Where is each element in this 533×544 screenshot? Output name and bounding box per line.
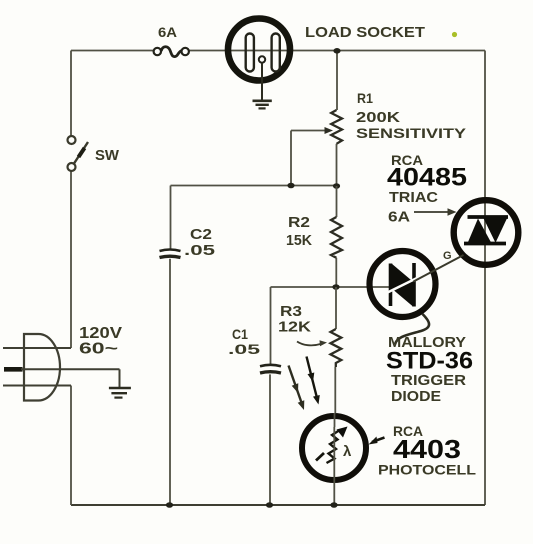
junction (top rail / R1 branch) — [333, 48, 340, 54]
junction (photocell / bottom rail) — [330, 502, 337, 508]
wire: left vertical switch to plug hot prong — [70, 172, 72, 349]
photocell PC1 RCA 4403 — [302, 416, 366, 480]
junction (R2/R3/diac node) — [332, 284, 339, 290]
svg-text:LOAD SOCKET: LOAD SOCKET — [305, 24, 425, 41]
capacitor C1 — [270, 287, 272, 365]
wire: middle prong to ground — [119, 369, 121, 387]
svg-text:DIODE: DIODE — [391, 389, 441, 405]
svg-text:G: G — [443, 250, 452, 262]
svg-text:STD-36: STD-36 — [386, 348, 473, 375]
pointer arrow from 12K to R3 — [297, 342, 321, 346]
ground (below socket) — [253, 63, 272, 109]
svg-text:C2: C2 — [190, 227, 212, 243]
svg-text:TRIAC: TRIAC — [389, 190, 439, 206]
pointer squiggle to MALLORY label — [395, 314, 429, 344]
pointer arrow from 6A to triac — [414, 211, 448, 213]
svg-text:.05: .05 — [184, 243, 215, 259]
resistor R2 zigzag — [336, 186, 338, 217]
light arrows onto photocell — [289, 357, 320, 411]
wire: top rail from left corner to fuse — [71, 50, 153, 52]
potentiometer R1 zigzag — [331, 110, 342, 144]
load socket J1 — [228, 19, 290, 81]
ground (plug) — [109, 388, 131, 398]
wire: photocell top lead — [334, 413, 336, 427]
wire: wiper down — [290, 131, 292, 186]
plug prong (hot, top) — [3, 347, 71, 349]
svg-text:R3: R3 — [280, 304, 302, 320]
junction (R1 bottom / link) — [333, 183, 340, 189]
svg-text:C1: C1 — [232, 326, 248, 342]
plug prong (neutral, bottom) — [3, 385, 71, 387]
wire: horizontal node link R2 bottom to diac — [271, 286, 392, 288]
fuse F1 6A — [154, 47, 189, 57]
svg-text:6A: 6A — [158, 24, 177, 40]
wire: top rail from fuse to right corner — [190, 50, 486, 52]
svg-text:15K: 15K — [286, 233, 313, 249]
svg-text:SENSITIVITY: SENSITIVITY — [356, 125, 467, 141]
svg-text:TRIGGER: TRIGGER — [391, 373, 467, 389]
svg-text:R1: R1 — [357, 90, 373, 106]
junction (wiper / link) — [287, 183, 294, 189]
plug prong (ground, middle, thick stub) — [4, 367, 23, 372]
trigger diode D1 (diac) — [370, 251, 436, 317]
wire: horizontal C2/R1-bottom link — [171, 185, 337, 187]
triac U1 RCA 40485 — [454, 200, 519, 265]
svg-text:PHOTOCELL: PHOTOCELL — [378, 462, 477, 478]
svg-text:120V: 120V — [79, 325, 123, 342]
svg-text:60~: 60~ — [79, 341, 118, 358]
pointer arrow from 4403 to photocell — [372, 438, 385, 443]
wire: gate line diac to triac — [414, 255, 464, 282]
wire: bottom rail — [71, 504, 485, 506]
capacitor C2 — [170, 186, 172, 250]
wire: left vertical top (to switch) — [70, 51, 72, 136]
svg-text:λ: λ — [343, 443, 352, 460]
junction (C2 / bottom rail) — [166, 502, 173, 508]
wire: right vertical rail — [484, 51, 486, 506]
wire: photocell through/bottom lead — [333, 427, 335, 505]
wire: branch from top rail down to R1 — [336, 51, 338, 111]
svg-text:SW: SW — [95, 148, 119, 164]
switch SW — [68, 136, 89, 171]
R1 wiper arrow — [291, 130, 326, 132]
AC plug P1 — [3, 334, 120, 401]
svg-text:R2: R2 — [288, 215, 310, 231]
wire: left vertical plug neutral prong to bottom rail — [70, 386, 72, 506]
svg-text:40485: 40485 — [387, 164, 467, 192]
resistor R3 zigzag — [335, 287, 337, 329]
stray green dot artifact — [452, 32, 457, 37]
svg-text:.05: .05 — [228, 341, 260, 357]
svg-text:6A: 6A — [388, 209, 410, 226]
svg-text:4403: 4403 — [393, 434, 461, 464]
wire: R1 bottom lead — [336, 144, 338, 186]
svg-text:12K: 12K — [278, 320, 312, 336]
junction (C1 / bottom rail) — [266, 502, 273, 508]
svg-text:200K: 200K — [356, 110, 401, 126]
